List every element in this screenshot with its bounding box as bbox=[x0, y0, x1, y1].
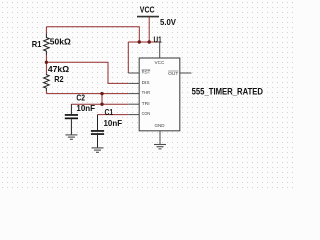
wire: R1/R2 junction to DIS pin bbox=[46, 62, 128, 83]
svg-text:10nF: 10nF bbox=[104, 118, 123, 128]
wire: VCC bus horizontal y=42 bbox=[128, 41, 159, 43]
svg-text:R2: R2 bbox=[54, 74, 64, 84]
wire: R1 top to VCC bus (horizontal + drop) bbox=[46, 27, 139, 42]
wire: R2 top lead bbox=[45, 62, 47, 73]
wire: THR-TRI tie bbox=[101, 94, 103, 105]
wire: R1 bottom lead bbox=[45, 55, 47, 62]
pin 1 GND stub bbox=[159, 131, 161, 145]
resistor R1 bbox=[44, 33, 50, 55]
capacitor C2 bbox=[65, 104, 78, 135]
junction dot THR node bbox=[100, 92, 103, 95]
svg-text:OUT: OUT bbox=[168, 71, 179, 76]
svg-text:C1: C1 bbox=[105, 107, 114, 117]
junction dot R1/R2 node bbox=[45, 61, 48, 64]
svg-text:RST: RST bbox=[142, 70, 151, 75]
ground (C1) bbox=[92, 148, 104, 152]
pin 8 VCC stub bbox=[159, 42, 161, 58]
svg-text:10nF: 10nF bbox=[76, 103, 95, 113]
canvas background bbox=[0, 0, 293, 189]
ground (U1 GND) bbox=[154, 145, 166, 149]
pin 3 OUT stub bbox=[180, 72, 192, 74]
pin 4 RST stub bbox=[128, 72, 139, 74]
svg-text:R1: R1 bbox=[32, 39, 42, 49]
svg-text:VCC: VCC bbox=[140, 5, 155, 15]
svg-text:TRI: TRI bbox=[142, 101, 150, 106]
ground (C2) bbox=[65, 135, 77, 139]
svg-text:DIS: DIS bbox=[142, 80, 150, 85]
resistor R2 bbox=[44, 73, 50, 91]
wire: C2 top to TRI pin bbox=[71, 103, 128, 105]
svg-text:CON: CON bbox=[142, 111, 151, 116]
wire: bus down to RST pin bbox=[127, 42, 129, 73]
pin 5 CON stub bbox=[128, 114, 139, 116]
junction dot TRI node bbox=[100, 103, 103, 106]
wire: R2 bottom to THR pin bbox=[46, 93, 128, 95]
wire: VCC symbol drop bbox=[148, 17, 150, 42]
svg-text:C2: C2 bbox=[76, 93, 85, 103]
svg-text:47kΩ: 47kΩ bbox=[48, 64, 69, 74]
capacitor C1 bbox=[91, 115, 104, 148]
wire: R2 bottom lead bbox=[45, 91, 47, 94]
svg-text:GND: GND bbox=[155, 123, 166, 128]
junction dot at bus/VCC bbox=[148, 40, 151, 43]
svg-text:50kΩ: 50kΩ bbox=[50, 37, 71, 47]
pin 6 THR stub bbox=[128, 93, 139, 95]
wire: R1 top lead bbox=[45, 27, 47, 34]
svg-text:555_TIMER_RATED: 555_TIMER_RATED bbox=[192, 87, 263, 97]
op-amp U1 555 timer body bbox=[139, 58, 180, 131]
svg-text:THR: THR bbox=[142, 90, 151, 95]
svg-text:U1: U1 bbox=[154, 35, 162, 45]
svg-text:5.0V: 5.0V bbox=[160, 17, 176, 27]
junction dot at bus/R1 bbox=[138, 40, 141, 43]
pin 7 DIS stub bbox=[128, 82, 139, 84]
pin 2 TRI stub bbox=[128, 103, 139, 105]
svg-text:VCC: VCC bbox=[155, 60, 166, 65]
VCC power symbol bbox=[137, 5, 159, 17]
wire: C1 top to CON pin bbox=[98, 114, 129, 116]
